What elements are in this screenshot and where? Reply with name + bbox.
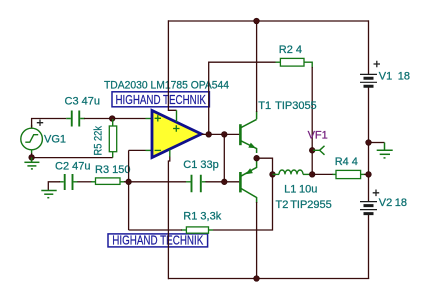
wire minus node to C1 [129,181,186,183]
plus mark V1 [374,61,381,68]
wire V1 to V2 vertical [368,87,370,202]
svg-text:VF1: VF1 [308,130,328,142]
transistor T1 TIP3055 [240,111,256,153]
node dot coil right / R4 left [309,172,315,178]
wire feedback down and left to R1 [213,174,273,230]
node dot right rail ground [366,140,372,146]
svg-text:TDA2030 LM1785 OPA544: TDA2030 LM1785 OPA544 [104,79,229,91]
capacitor C3 [66,111,85,127]
capacitor C2 [59,174,78,190]
text box HIGHAND TECHNIK (upper) [112,92,209,107]
resistor R2 4 [276,58,313,68]
wire R1 left to minus node vertical [129,229,182,231]
resistor R5 22k (vertical) [109,119,116,158]
svg-text:T1: T1 [258,100,271,112]
svg-text:HIGHAND TECHNIK: HIGHAND TECHNIK [115,92,206,107]
op-amp minus input mark [155,149,161,151]
T1 emitter arrow [248,143,256,149]
ground at C2 [41,191,56,198]
svg-text:V1: V1 [379,70,392,82]
plus mark at VG1 [37,120,43,126]
resistor R3 150 [96,178,126,185]
svg-text:C1 33p: C1 33p [183,159,218,171]
wire minus node vertical [128,150,130,230]
wire VG1 plus to C3 [32,119,67,128]
svg-text:10u: 10u [299,183,317,195]
transistor T2 TIP2955 [240,158,256,203]
svg-text:C2 47u: C2 47u [55,160,90,172]
node dot output b [222,132,228,138]
wire T1 collector to rail [256,21,258,112]
T2 emitter arrow [246,168,253,174]
svg-text:TIP2955: TIP2955 [290,199,332,211]
capacitor C1 [186,175,206,192]
resistor R4 4 [333,170,365,178]
node dot bottom rail [254,276,260,282]
wire C3 to op-amp +in [84,118,146,120]
svg-text:HIGHAND TECHNIK: HIGHAND TECHNIK [112,233,203,248]
wire top-left vertical (V+ supply from rail) [168,20,176,110]
svg-text:T2: T2 [276,199,289,211]
text box HIGHAND TECHNIK (lower) [108,233,208,248]
wire rail to V1 battery [368,20,370,74]
voltage pin VF1 [313,146,325,155]
node dot coil left [270,172,276,178]
wire bottom rail [168,278,369,280]
svg-text:R4 4: R4 4 [335,156,358,168]
node dot C1/T2 base wire [222,179,228,185]
wire VF1 node to R4 [312,173,333,175]
svg-text:R2 4: R2 4 [279,44,302,56]
wire emitters to coil corner [257,158,273,174]
wire R3 to minus node [124,181,129,183]
battery V1 18 [360,74,377,86]
node dot minus input [126,179,132,185]
svg-text:L1: L1 [284,183,296,195]
wire output to C1 node vertical [223,134,225,181]
inductor L1 10u [273,170,313,174]
wire V2 bottom to bottom rail [368,215,370,279]
wire minus node to op-amp [129,149,146,151]
svg-text:TIP3055: TIP3055 [275,100,317,112]
ground at right rail [377,143,393,158]
svg-text:18: 18 [395,197,407,209]
wire C2 right to R3 [78,181,93,183]
wire R5 bottom to VG1 bottom [32,153,113,158]
svg-text:R1 3,3k: R1 3,3k [183,211,221,223]
op-amp V- pin [169,150,171,157]
op-amp U1 triangle [152,111,201,158]
svg-text:VG1: VG1 [44,134,66,146]
node dot R4 right on rail [366,172,372,178]
op-amp V+ mark [173,125,179,131]
resistor R1 3,3k [181,227,213,233]
node dot top rail [254,18,260,24]
battery V2 18 [360,202,377,214]
ground at VG1 [24,157,39,169]
svg-text:R3 150: R3 150 [95,164,130,176]
node dot emitters [254,155,260,161]
wire V- vertical (op-amp negative supply) [168,156,169,279]
plus mark V2 [373,190,380,197]
wire C1 right to T2 base [206,181,240,183]
svg-text:V2: V2 [379,197,392,209]
op-amp V+ pin [176,110,178,122]
svg-text:C3 47u: C3 47u [65,96,100,108]
wire T2 collector to bottom rail [256,202,258,279]
svg-text:18: 18 [398,70,410,82]
wire C2 left to ground [48,182,60,190]
node dot +in / R5 [109,116,115,122]
source VG1 [21,125,43,154]
op-amp plus input mark [155,115,161,121]
wire R2 right down to VF1 node [311,67,313,174]
wire ground stub at right rail [369,142,385,144]
wire op-amp output [201,133,239,135]
node dot VG1 ground [29,155,35,161]
wire top rail [168,20,368,22]
wire R4 to rail [364,173,369,175]
svg-text:R5 22k: R5 22k [93,126,105,156]
node dot VF1 [309,148,315,154]
wire output up to R2 [209,62,276,134]
node dot output a [206,132,212,138]
